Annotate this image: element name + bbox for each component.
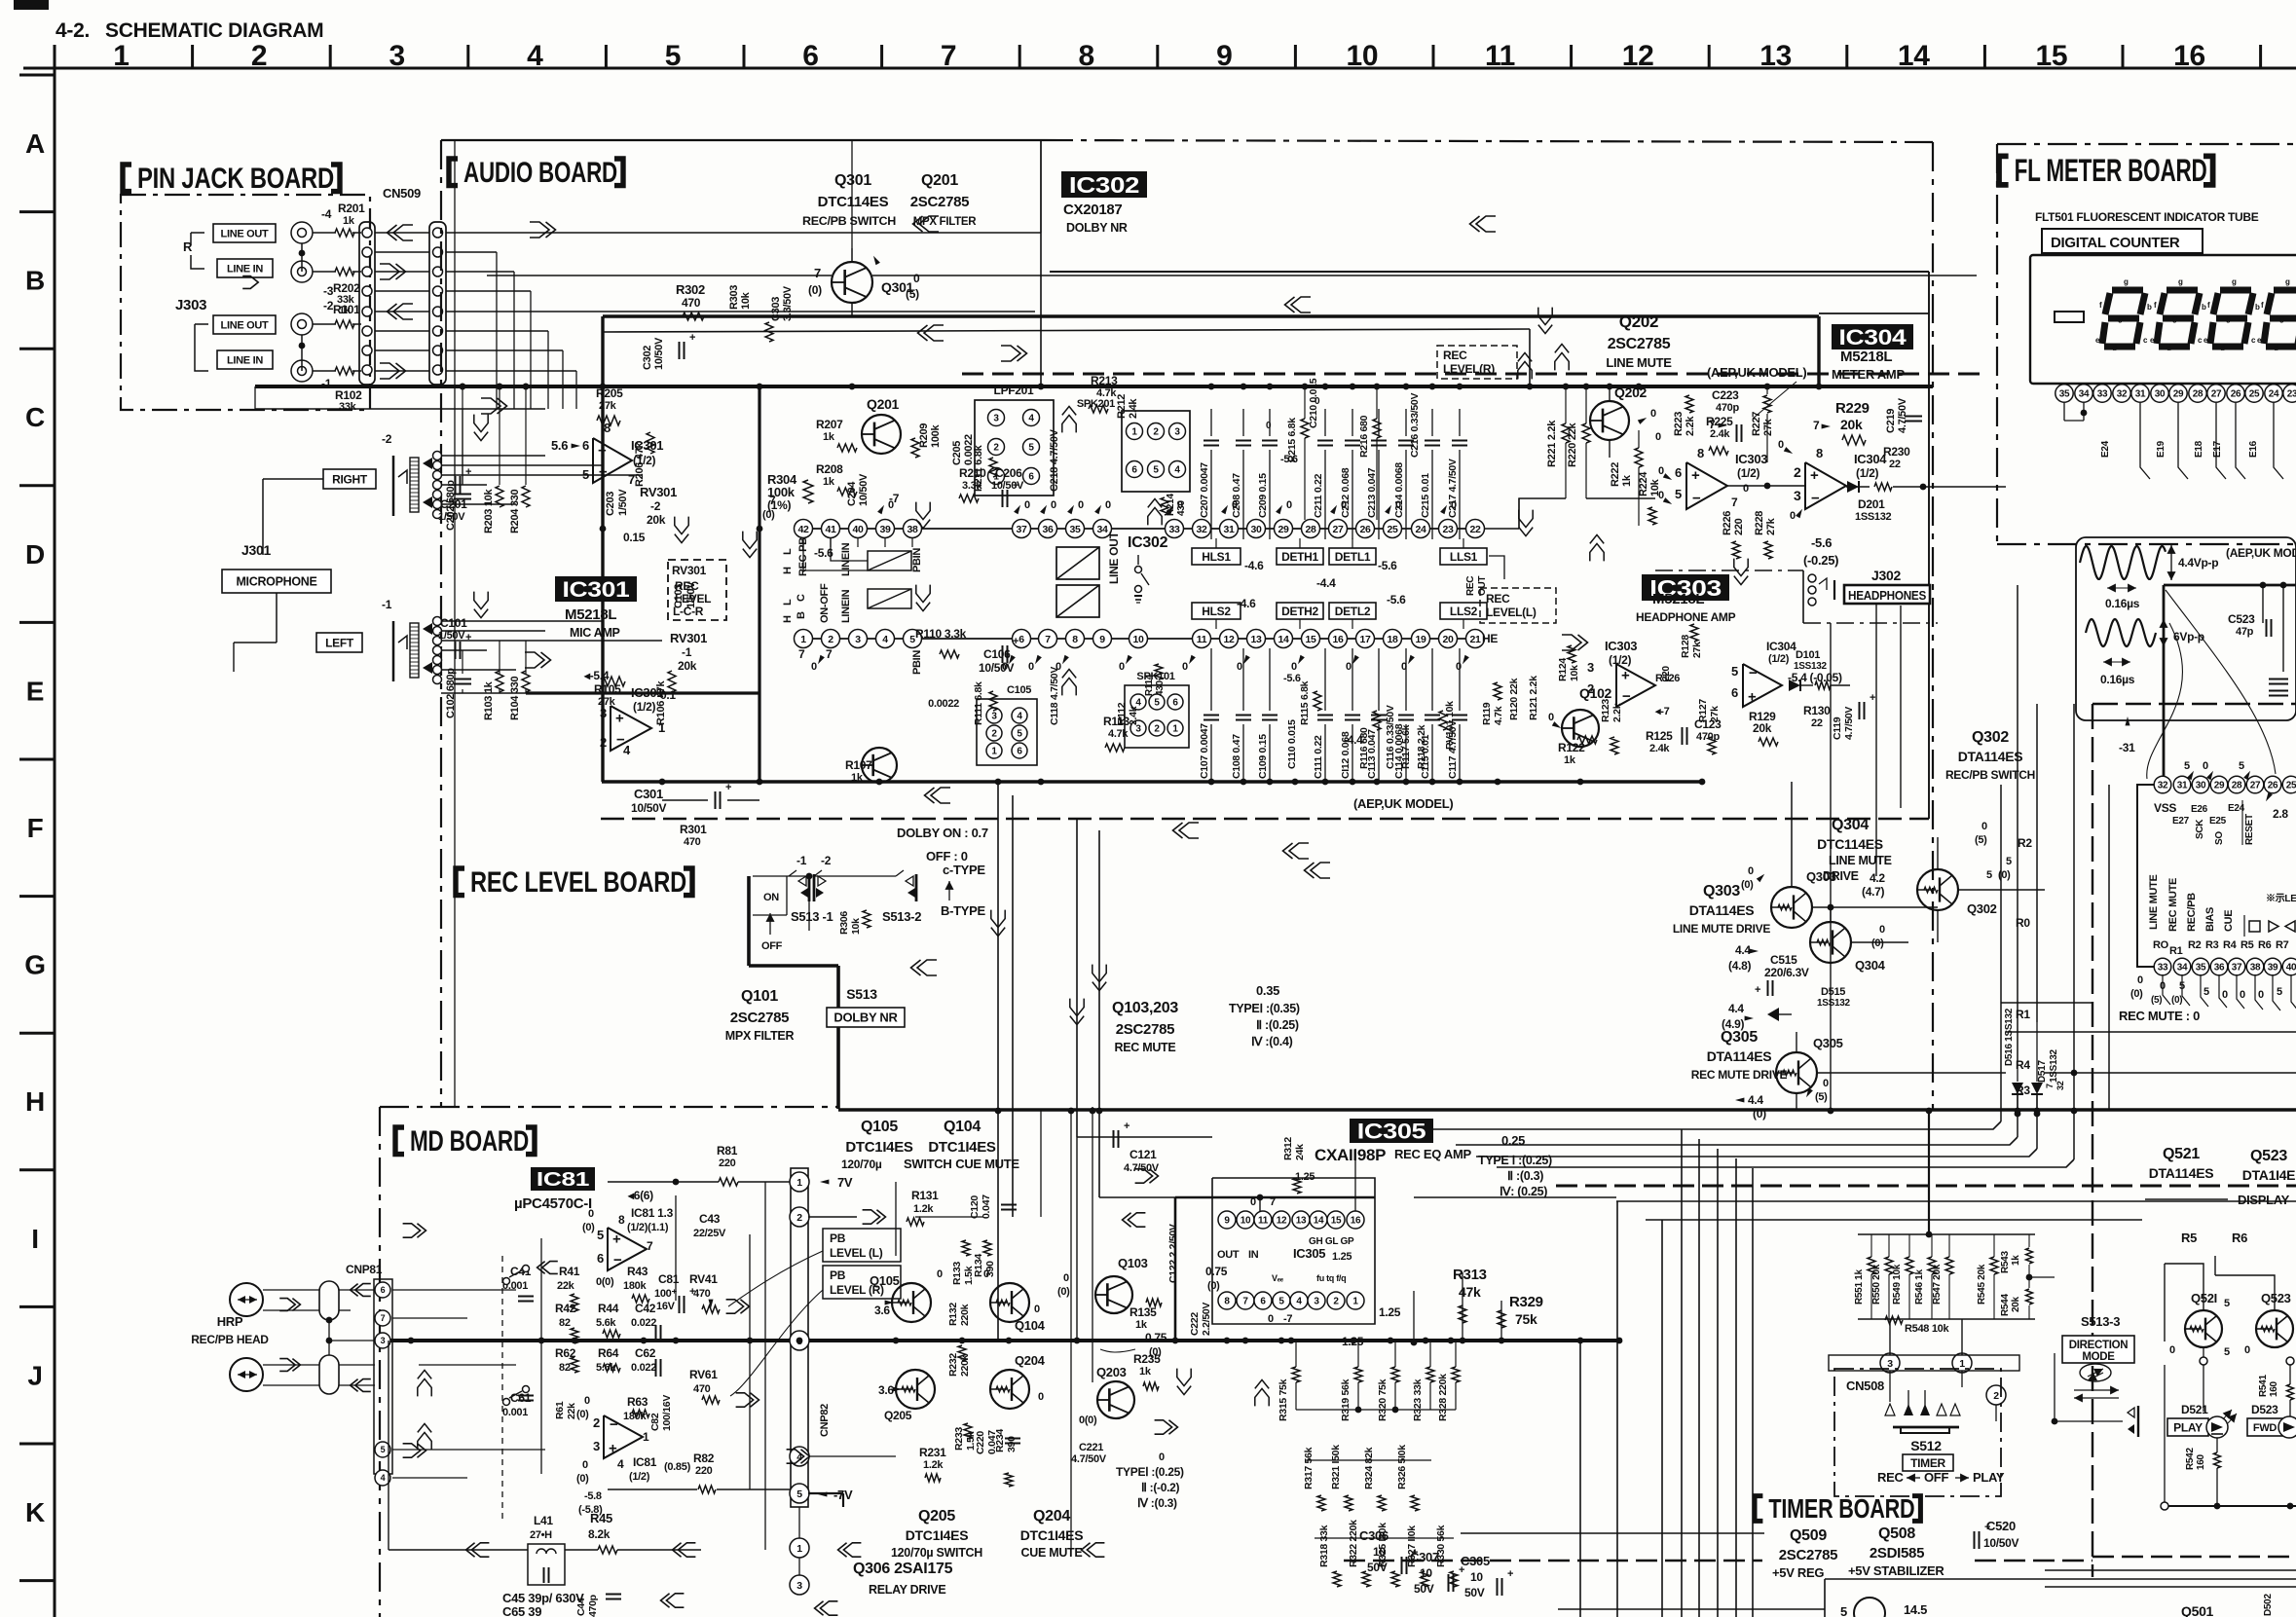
FL pin 33 [2093, 385, 2111, 402]
svg-text:R118 2.2k: R118 2.2k [1416, 724, 1427, 769]
svg-text:b: b [2202, 303, 2206, 312]
svg-text:430: 430 [1176, 499, 1187, 516]
svg-text:g: g [2232, 277, 2237, 286]
svg-text:Vₑₑ: Vₑₑ [1272, 1273, 1284, 1283]
jack contact triangles [423, 458, 432, 469]
svg-text:DETL1: DETL1 [1335, 550, 1371, 564]
svg-text:24: 24 [2269, 389, 2279, 400]
IC302 pin row top wire [794, 528, 1485, 530]
IC302 pin 19 [1412, 630, 1430, 648]
thick wire right waveform [2163, 585, 2166, 785]
svg-text:Q523: Q523 [2261, 1291, 2291, 1305]
svg-text:PLAY: PLAY [2173, 1420, 2203, 1434]
svg-text:−: − [1811, 490, 1820, 506]
svg-text:390: 390 [1006, 1436, 1018, 1452]
svg-text:12: 12 [1622, 40, 1654, 72]
svg-text:5: 5 [1986, 869, 1992, 881]
svg-text:C201: C201 [440, 497, 467, 511]
signal arrow out 1 [393, 225, 413, 240]
svg-text:5: 5 [1154, 698, 1160, 709]
signal arrow in 2 [380, 363, 399, 379]
display outline [2030, 255, 2296, 384]
7seg digit 3 [2220, 287, 2251, 294]
IC301 black label [555, 576, 637, 602]
audio board left boundary [440, 140, 442, 1107]
svg-text:9: 9 [1216, 40, 1232, 72]
svg-text:R550 20k: R550 20k [1871, 1264, 1882, 1305]
svg-text:0: 0 [1658, 465, 1664, 477]
svg-text:0: 0 [1456, 661, 1462, 673]
FL pin 28 [2189, 385, 2206, 402]
svg-text:3: 3 [1587, 660, 1594, 675]
svg-text:Q306 2SAI175: Q306 2SAI175 [853, 1561, 953, 1577]
svg-text:M5218L: M5218L [1652, 591, 1704, 607]
svg-text:(0): (0) [1207, 1280, 1220, 1292]
svg-text:0.0022: 0.0022 [928, 698, 959, 710]
resistor R205 [597, 416, 620, 425]
connector strip J303 side [359, 222, 375, 385]
svg-text:(0): (0) [1057, 1286, 1070, 1298]
svg-text:C62: C62 [635, 1346, 656, 1360]
svg-text:+: + [1810, 467, 1819, 484]
transistor Q101 [862, 748, 897, 783]
svg-text:-1: -1 [796, 854, 807, 867]
svg-text:R133: R133 [951, 1262, 963, 1285]
svg-text:27k: 27k [1762, 418, 1774, 436]
svg-text:(0): (0) [1998, 869, 2011, 881]
svg-text:Q305: Q305 [1721, 1029, 1758, 1046]
IC302 pin 9 [1093, 630, 1112, 648]
svg-text:LINE IN: LINE IN [227, 263, 263, 275]
svg-text:◂6(6): ◂6(6) [627, 1189, 653, 1202]
junction dots bus y397 [460, 384, 466, 390]
resistor R101 [335, 320, 354, 328]
LPF201 box [975, 400, 1054, 496]
resistor R206 [647, 432, 654, 454]
svg-text:R121 2.2k: R121 2.2k [1528, 676, 1539, 720]
main bus y1377 heavy [389, 1339, 1622, 1342]
svg-text:5: 5 [1028, 443, 1034, 454]
svg-text:PB: PB [830, 1268, 846, 1282]
svg-text:R110 3.3k: R110 3.3k [915, 627, 967, 641]
svg-text:10/50V: 10/50V [653, 337, 665, 370]
resistor R201 [335, 229, 354, 237]
svg-text:J303: J303 [175, 297, 206, 313]
IC302 pin 42 [795, 520, 813, 538]
svg-text:7: 7 [1242, 1297, 1248, 1307]
syscon pin 27 [2246, 776, 2264, 793]
SPK101 box [1125, 685, 1189, 748]
svg-text:DETH1: DETH1 [1281, 550, 1318, 564]
svg-text:C43: C43 [699, 1212, 721, 1226]
syscon pin 32 [2154, 776, 2171, 793]
svg-text:-4: -4 [321, 207, 332, 221]
REC LEVEL(L) dashed box [1480, 588, 1556, 623]
svg-text:22: 22 [1889, 459, 1901, 470]
svg-text:R543: R543 [2000, 1251, 2011, 1273]
svg-text:50V: 50V [1367, 1561, 1388, 1574]
svg-text:R233: R233 [953, 1427, 965, 1451]
svg-text:DTC1I4ES: DTC1I4ES [906, 1527, 969, 1543]
IC305 pin 15 [1327, 1211, 1345, 1229]
svg-text:0: 0 [2137, 974, 2143, 986]
svg-text:0: 0 [1119, 661, 1125, 673]
svg-text:1: 1 [1172, 724, 1178, 735]
svg-text:C307: C307 [1410, 1550, 1439, 1564]
svg-text:R134: R134 [973, 1254, 984, 1277]
svg-text:26: 26 [2268, 781, 2278, 791]
svg-text:M5218L: M5218L [1840, 349, 1892, 365]
bus y420 [255, 408, 545, 410]
svg-text:DTC1I4ES: DTC1I4ES [928, 1139, 996, 1156]
svg-text:4.7/50V: 4.7/50V [1071, 1453, 1107, 1465]
svg-text:27k: 27k [599, 400, 617, 412]
block HLS2 [1192, 603, 1241, 619]
svg-text:1/50V: 1/50V [438, 511, 465, 523]
svg-text:27•H: 27•H [530, 1529, 552, 1541]
IC302 pin 6 [1013, 630, 1031, 648]
jack contacts column [433, 452, 442, 460]
svg-text:35: 35 [2196, 963, 2206, 974]
svg-text:28: 28 [2193, 389, 2203, 400]
vertical x1070 [1040, 140, 1042, 386]
svg-text:Q304: Q304 [1832, 817, 1869, 833]
svg-text:4: 4 [1296, 1297, 1302, 1307]
svg-text:LLS2: LLS2 [1450, 605, 1478, 618]
syscon pin 26 [2264, 776, 2281, 793]
svg-text:CX20187: CX20187 [1063, 202, 1122, 218]
svg-text:C120: C120 [969, 1195, 981, 1219]
opamp IC304 half [1805, 462, 1846, 509]
syscon pin 25 [2282, 776, 2296, 793]
wires from left jack [441, 620, 604, 622]
svg-text:MD BOARD: MD BOARD [410, 1125, 529, 1158]
svg-text:-1: -1 [682, 645, 692, 659]
svg-text:33k: 33k [339, 401, 357, 413]
svg-text:1.25: 1.25 [1332, 1251, 1352, 1263]
svg-text:IC81: IC81 [537, 1169, 589, 1191]
board label MD BOARD [395, 1127, 404, 1155]
svg-text:Ⅱ :(0.25): Ⅱ :(0.25) [1256, 1018, 1299, 1032]
svg-text:(4.8): (4.8) [1728, 959, 1751, 973]
chevrons md bottom [471, 1543, 489, 1557]
svg-text:0: 0 [2222, 989, 2228, 1001]
svg-text:REC/PB: REC/PB [2186, 893, 2198, 932]
svg-text:2.4k: 2.4k [1128, 706, 1139, 725]
svg-text:3: 3 [389, 40, 405, 72]
svg-text:FL METER BOARD: FL METER BOARD [2015, 153, 2207, 188]
svg-text:1: 1 [796, 1177, 802, 1189]
svg-text:C220: C220 [975, 1431, 986, 1454]
svg-text:R45: R45 [590, 1511, 612, 1525]
IC302 pin 5 [904, 630, 922, 648]
svg-text:0: 0 [1237, 661, 1242, 673]
svg-text:R44: R44 [598, 1302, 619, 1315]
svg-text:+5V STABILIZER: +5V STABILIZER [1848, 1563, 1944, 1578]
svg-text:7: 7 [647, 1239, 653, 1253]
svg-text:39: 39 [879, 524, 891, 535]
label LINE IN [217, 259, 273, 277]
switch sym 2 [503, 1399, 510, 1406]
resistor R104 [522, 671, 530, 692]
svg-text:7: 7 [798, 647, 805, 661]
svg-text:R130: R130 [1803, 704, 1831, 717]
svg-text:R323 33k: R323 33k [1412, 1378, 1424, 1421]
svg-text:50V: 50V [1464, 1586, 1485, 1599]
resistor R204 [522, 486, 530, 507]
svg-text:5: 5 [597, 1228, 604, 1242]
svg-text:4.4: 4.4 [1728, 1002, 1744, 1015]
svg-text:8: 8 [1697, 446, 1704, 460]
svg-text:Q202: Q202 [1619, 312, 1658, 331]
svg-text:(0): (0) [2130, 988, 2143, 1000]
svg-text:1k: 1k [823, 476, 835, 488]
svg-text:4: 4 [1017, 712, 1022, 722]
svg-text:+: + [465, 632, 471, 643]
IC302 pin 15 [1302, 630, 1320, 648]
svg-text:2SC2785: 2SC2785 [1779, 1547, 1837, 1563]
svg-text:Q509: Q509 [1790, 1527, 1827, 1544]
capacitor C108 [1242, 648, 1244, 711]
svg-text:R6: R6 [2232, 1231, 2247, 1245]
svg-text:IC302: IC302 [1069, 172, 1139, 198]
svg-text:2.2k: 2.2k [1611, 703, 1623, 722]
svg-text:1k: 1k [343, 215, 355, 227]
PB LEVEL L box [823, 1229, 901, 1262]
svg-text:+: + [1755, 984, 1760, 996]
svg-text:R116 680: R116 680 [1358, 727, 1370, 769]
svg-text:7: 7 [826, 647, 833, 661]
svg-text:1: 1 [643, 1430, 649, 1444]
pin 3 circle [1880, 1353, 1900, 1373]
svg-text:220: 220 [1733, 518, 1745, 535]
svg-text:-2: -2 [382, 432, 392, 446]
bus from ic305 to right [1414, 1196, 1616, 1198]
svg-text:0: 0 [1879, 924, 1885, 936]
svg-text:6: 6 [1131, 465, 1137, 476]
svg-text:R42: R42 [555, 1302, 576, 1315]
svg-text:0: 0 [588, 1208, 594, 1220]
svg-text:RIGHT: RIGHT [332, 472, 368, 486]
pin 6 [375, 1282, 390, 1298]
svg-text:C116 0.33/50V: C116 0.33/50V [1385, 705, 1396, 769]
svg-text:R321 I50k: R321 I50k [1330, 1445, 1342, 1489]
svg-text:27k: 27k [598, 696, 616, 708]
svg-text:-5.6: -5.6 [1280, 454, 1298, 465]
svg-text:4: 4 [1174, 465, 1180, 476]
dashed bus y1218 [1556, 1185, 2296, 1188]
opamp IC303 second half [1616, 664, 1655, 707]
svg-text:R123: R123 [1600, 699, 1611, 722]
svg-text:R322 220k: R322 220k [1348, 1520, 1359, 1567]
svg-text:5: 5 [1017, 729, 1022, 740]
svg-text:M5218L: M5218L [565, 606, 616, 623]
svg-text:C515: C515 [1770, 953, 1797, 967]
svg-text:IC305: IC305 [1357, 1119, 1426, 1143]
svg-text:DIRECTION: DIRECTION [2069, 1340, 2129, 1351]
IC302 pin 28 [1302, 520, 1320, 538]
svg-text:◂-7: ◂-7 [1654, 706, 1670, 717]
svg-text:1SS132: 1SS132 [1817, 998, 1851, 1009]
IC305 pin 7 [1237, 1292, 1254, 1309]
svg-text:LEVEL(R): LEVEL(R) [1443, 362, 1495, 376]
capacitor C215 [1431, 450, 1433, 539]
transistor Q204 [990, 1370, 1029, 1409]
syscon verticals [2000, 785, 2002, 1121]
opamp IC81 first [608, 1228, 647, 1270]
svg-text:C44: C44 [575, 1598, 587, 1616]
IC302 pin 10 [1129, 630, 1148, 648]
signal arrow out 2 [393, 304, 413, 319]
svg-text:27: 27 [2211, 389, 2222, 400]
svg-text:0: 0 [582, 1459, 588, 1471]
svg-text:0: 0 [1743, 483, 1749, 495]
svg-text:1/50V: 1/50V [685, 581, 697, 608]
diode D201 [1847, 481, 1859, 493]
svg-text:(1/2): (1/2) [1737, 466, 1759, 480]
FL pin 35 [2055, 385, 2073, 402]
svg-text:D502: D502 [2263, 1594, 2274, 1616]
7seg digit 1 [2112, 287, 2143, 294]
HRP head circle 1 [230, 1283, 263, 1316]
label LINE IN 2 [217, 350, 273, 369]
resistor R203 [496, 486, 503, 507]
svg-text:IC301: IC301 [563, 577, 630, 602]
curves pb level [728, 1251, 823, 1306]
svg-text:PB: PB [830, 1231, 846, 1245]
svg-text:S513 -1: S513 -1 [791, 909, 833, 924]
IC81 black label [531, 1167, 595, 1191]
svg-text:LEVEL (L): LEVEL (L) [830, 1246, 883, 1260]
svg-text:R229: R229 [1835, 400, 1870, 417]
svg-text:32: 32 [1196, 524, 1207, 535]
sine wave 2 [2086, 619, 2156, 646]
svg-text:※示LE: ※示LE [2266, 893, 2296, 904]
svg-text:47p: 47p [2236, 626, 2254, 638]
svg-text:C118 4.7/50V: C118 4.7/50V [1049, 667, 1060, 725]
svg-text:1.25: 1.25 [1379, 1305, 1401, 1319]
wires to Q202 [1609, 440, 1611, 458]
svg-text:+: + [1691, 467, 1700, 484]
svg-text:37: 37 [2232, 963, 2242, 974]
chevron ic305 [1135, 1169, 1153, 1183]
vertical x780 thick [758, 386, 760, 785]
svg-text:2SC2785: 2SC2785 [910, 194, 969, 210]
D101 diode [1789, 680, 1800, 691]
svg-text:R216 680: R216 680 [1358, 415, 1370, 458]
vertical x1025 pair [997, 782, 999, 1341]
pin voltage annotations top row [877, 505, 884, 514]
svg-text:R63: R63 [627, 1395, 648, 1409]
S513-2 switch [906, 876, 913, 886]
dashed bus y384 [962, 373, 1984, 376]
svg-text:6: 6 [381, 1285, 386, 1295]
svg-text:HEADPHONES: HEADPHONES [1848, 589, 1926, 603]
MD connector circles column [791, 1168, 808, 1507]
svg-text:16: 16 [2173, 40, 2205, 72]
svg-text:6: 6 [1260, 1297, 1266, 1307]
svg-text:20k: 20k [1840, 417, 1863, 432]
svg-text:AUDIO BOARD: AUDIO BOARD [463, 157, 617, 189]
jack L out [291, 313, 313, 335]
svg-text:Ⅳ :(0.4): Ⅳ :(0.4) [1251, 1035, 1293, 1048]
ruler line [23, 67, 2296, 70]
jack L in [291, 360, 313, 382]
svg-text:REC EQ AMP: REC EQ AMP [1394, 1147, 1471, 1161]
pin 4b [375, 1470, 390, 1486]
svg-text:BIAS: BIAS [2204, 907, 2216, 932]
bus y712 heavy [441, 692, 601, 694]
pin 7 [375, 1310, 390, 1326]
svg-text:R328 220k: R328 220k [1437, 1374, 1449, 1421]
svg-text:1k: 1k [1564, 754, 1576, 766]
svg-text:6: 6 [582, 438, 589, 453]
connector pin 4 [790, 1447, 809, 1466]
svg-text:S513-3: S513-3 [2081, 1314, 2120, 1329]
vertical x1870 thick [1817, 316, 1820, 384]
svg-text:R547 20k: R547 20k [1932, 1264, 1943, 1305]
svg-text:R125: R125 [1646, 729, 1673, 743]
wire Q301 collector [851, 248, 853, 262]
CNP81 strip [374, 1279, 392, 1474]
svg-text:2.4k: 2.4k [1128, 398, 1139, 419]
svg-text:15: 15 [1331, 1216, 1342, 1227]
svg-text:2: 2 [251, 40, 267, 72]
short stubs near pins row1 [802, 538, 804, 547]
svg-text:10k: 10k [1649, 478, 1661, 496]
svg-text:RV41: RV41 [689, 1272, 718, 1286]
svg-text:OFF: OFF [761, 940, 783, 952]
svg-text:b: b [2255, 303, 2260, 312]
svg-text:5: 5 [2184, 760, 2190, 772]
svg-text:6: 6 [1017, 747, 1022, 757]
svg-text:0: 0 [1790, 510, 1796, 522]
svg-text:MPX FILTER: MPX FILTER [725, 1029, 795, 1043]
resistor R102 [335, 367, 354, 375]
svg-text:10/50V: 10/50V [858, 473, 870, 506]
svg-text:C109 0.15: C109 0.15 [1257, 734, 1269, 779]
svg-text:8: 8 [1079, 40, 1094, 72]
IC302 black label [1061, 171, 1147, 198]
svg-text:OUT: OUT [1217, 1249, 1240, 1261]
svg-text:10: 10 [1241, 1216, 1251, 1227]
svg-text:0.001: 0.001 [502, 1407, 528, 1418]
svg-text:(0.85): (0.85) [664, 1461, 691, 1473]
svg-text:C217 4.7/50V: C217 4.7/50V [1447, 459, 1459, 518]
bus y1253 [1646, 1219, 2142, 1221]
svg-text:R211 6.8k: R211 6.8k [973, 444, 984, 492]
svg-text:100k: 100k [767, 485, 796, 499]
svg-text:DOLBY ON : 0.7: DOLBY ON : 0.7 [897, 826, 988, 840]
svg-text:31: 31 [2177, 781, 2188, 791]
switch symbol bottom [2128, 1408, 2134, 1417]
block DETL2 [1329, 603, 1376, 619]
svg-text:30: 30 [1250, 524, 1262, 535]
svg-text:+: + [615, 710, 624, 726]
svg-text:CN509: CN509 [383, 186, 421, 201]
IC302 pin 34 [1093, 520, 1112, 538]
svg-text:3: 3 [855, 634, 861, 645]
svg-text:23: 23 [1442, 524, 1454, 535]
svg-text:R115 6.8k: R115 6.8k [1299, 680, 1311, 725]
svg-text:+: + [689, 332, 695, 344]
svg-text:CUE: CUE [2223, 910, 2235, 932]
cap C202 [454, 494, 471, 496]
svg-text:0.75: 0.75 [1205, 1265, 1228, 1278]
transistor Q301 [832, 262, 872, 303]
svg-text:0: 0 [1315, 396, 1320, 407]
svg-text:82: 82 [559, 1317, 571, 1329]
